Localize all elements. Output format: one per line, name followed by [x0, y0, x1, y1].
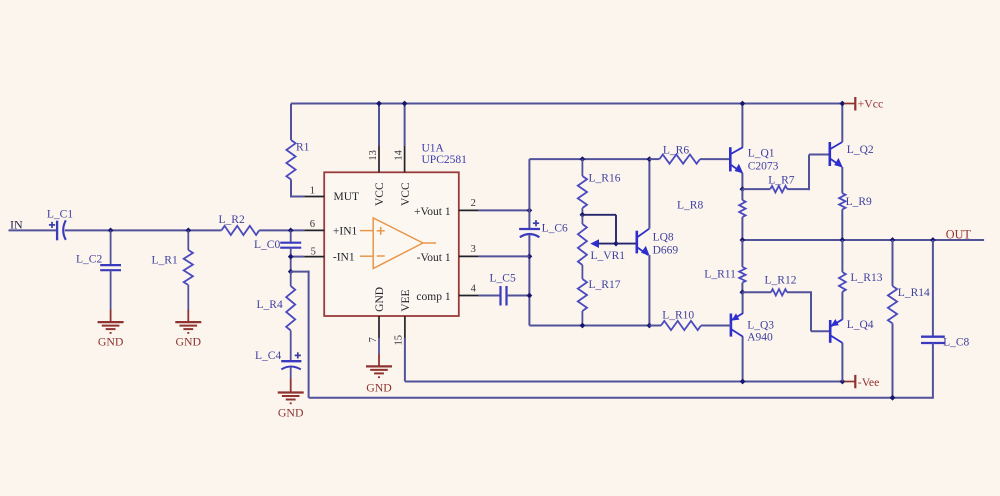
capacitor L_C0 [280, 242, 301, 244]
svg-text:15: 15 [394, 335, 405, 346]
wire Q2 collector riser [841, 104, 843, 143]
svg-text:1: 1 [310, 185, 315, 196]
svg-text:14: 14 [393, 149, 404, 160]
svg-text:MUT: MUT [334, 191, 360, 203]
wire OUT rail [742, 239, 984, 241]
ground GND under C2 [98, 321, 124, 323]
wire R16 bottom [581, 208, 583, 216]
node input junction 1 [108, 228, 114, 234]
svg-text:L_R13: L_R13 [851, 272, 883, 284]
svg-text:D669: D669 [653, 245, 679, 257]
svg-text:L_R11: L_R11 [704, 268, 736, 280]
wire R4 to C4 [290, 331, 292, 362]
node R14 feedback junction [890, 395, 896, 401]
wire R1 to gnd [187, 285, 189, 310]
svg-text:GND: GND [278, 406, 304, 420]
svg-text:L_Q4: L_Q4 [847, 319, 874, 331]
svg-text:LQ8: LQ8 [653, 232, 674, 244]
wire Q3 collector riser [742, 337, 744, 382]
node pin13 junction [376, 101, 382, 107]
wire R1 branch [187, 230, 189, 250]
wire R14 to feedback [892, 323, 894, 397]
wire input to R2 [65, 229, 222, 231]
svg-text:L_VR1: L_VR1 [591, 250, 626, 262]
transistor L_Q4 [829, 320, 832, 343]
node Q8 top junction [647, 156, 653, 162]
wire R10 to Q3 base [701, 325, 731, 327]
capacitor L_C8 [921, 336, 945, 338]
svg-text:GND: GND [176, 334, 202, 348]
node Q3 collector junction [740, 379, 746, 385]
svg-text:L_R4: L_R4 [257, 299, 283, 311]
transistor LQ8 D669 [635, 231, 638, 254]
svg-text:L_R9: L_R9 [846, 196, 872, 208]
resistor L_R13 [841, 240, 843, 272]
svg-text:L_R6: L_R6 [663, 144, 689, 156]
pin 3 stub [459, 255, 479, 257]
svg-text:-Vout 1: -Vout 1 [417, 252, 451, 264]
svg-text:L_Q2: L_Q2 [847, 144, 874, 156]
ground GND pin7 [366, 365, 392, 367]
wire feedback bottom run [309, 397, 933, 399]
node Q1 emitter junction [740, 186, 746, 192]
wire C0 bottom / pin5 node [290, 248, 292, 272]
svg-text:7: 7 [368, 337, 379, 342]
wire C2 branch [110, 230, 112, 265]
wire C8 top [932, 240, 934, 337]
svg-text:C2073: C2073 [748, 160, 779, 172]
resistor L_R14 [892, 240, 894, 286]
wire Q3 emitter riser [742, 292, 744, 313]
pin 13 VCC stub [378, 104, 380, 147]
potentiometer L_VR1 [581, 215, 583, 224]
resistor L_R9 [839, 193, 845, 209]
node pin3 junction [527, 254, 533, 260]
svg-text:L_R7: L_R7 [768, 175, 794, 187]
svg-text:comp 1: comp 1 [416, 291, 450, 303]
wire wiper to Q8 base [616, 243, 637, 245]
wire node A riser [528, 159, 530, 229]
wire C8 bottom [932, 343, 934, 399]
wire C6 bottom to bottom rail [528, 235, 530, 326]
svg-text:L_C1: L_C1 [47, 209, 73, 221]
node pin14 junction [402, 101, 408, 107]
svg-text:6: 6 [310, 219, 315, 230]
resistor L_R12 [742, 291, 771, 293]
op-amp U1A triangle [373, 218, 423, 269]
wire R13 to Q4 emitter [841, 292, 843, 320]
transistor L_Q1 C2073 [729, 147, 732, 171]
wire R7 to Q2 base [787, 188, 810, 190]
pin 1 MUT stub [304, 196, 324, 198]
svg-text:L_Q3: L_Q3 [747, 319, 774, 331]
svg-text:L_R17: L_R17 [589, 279, 621, 291]
ground GND under L_R1 [175, 321, 201, 323]
wire R1 to pin1 [290, 180, 292, 198]
wire R17 bottom [581, 311, 583, 326]
resistor L_R1 [184, 250, 193, 285]
wire Q8 collector riser [648, 159, 650, 229]
svg-text:L_R1: L_R1 [152, 255, 178, 267]
svg-text:OUT: OUT [946, 227, 972, 241]
wire R8 to OUT rail [741, 217, 743, 240]
node input junction 2 [185, 228, 191, 234]
svg-text:+Vcc: +Vcc [858, 96, 884, 110]
wire C4 to gnd [290, 367, 292, 378]
capacitor L_C1 [56, 221, 58, 241]
svg-text:L_C0: L_C0 [254, 239, 280, 251]
resistor L_R11 [741, 240, 743, 267]
svg-text:R1: R1 [296, 142, 310, 154]
svg-text:-Vee: -Vee [858, 375, 880, 389]
svg-text:GND: GND [98, 334, 124, 348]
svg-text:U1A: U1A [422, 143, 445, 155]
pin 5 stub [304, 256, 324, 258]
node R17 bottom junction [580, 323, 586, 329]
wire VR1 wiper arm [582, 214, 616, 216]
resistor L_R8 [741, 189, 743, 200]
node OUT rail R14 junction [890, 237, 896, 243]
wire R6 to Q1 base [700, 158, 730, 160]
svg-text:4: 4 [471, 283, 477, 294]
wire R12 to Q4 base [787, 291, 812, 293]
wire Q1 collector riser [741, 104, 743, 148]
svg-text:A940: A940 [747, 332, 773, 344]
svg-text:GND: GND [366, 381, 392, 395]
svg-text:L_C4: L_C4 [255, 350, 281, 362]
power -Vee [845, 381, 856, 383]
op-amp IC U1A body [324, 172, 459, 316]
wire R11 to R12 node [741, 283, 743, 293]
pin 4 stub [459, 295, 479, 297]
wire node A top rail [529, 158, 649, 160]
svg-text:13: 13 [368, 150, 379, 161]
pin 15 VEE stub [404, 316, 406, 338]
node junction at C0 top [288, 228, 294, 234]
node Q2 collector junction [839, 101, 845, 107]
svg-text:L_R14: L_R14 [898, 287, 930, 299]
svg-text:2: 2 [471, 198, 476, 209]
wire Q1 emitter riser [741, 173, 743, 189]
node Q8 bottom junction [647, 323, 653, 329]
node Q4 collector junction [840, 379, 846, 385]
resistor L_R6 [649, 158, 659, 160]
svg-text:L_R12: L_R12 [765, 275, 797, 287]
wire feedback down-leg [291, 271, 310, 273]
resistor L_R2 [221, 226, 259, 235]
node pin5 junction [288, 254, 294, 260]
wire R9 to OUT rail [841, 209, 843, 240]
node OUT rail R9 junction [839, 237, 845, 243]
node VR1 top junction [580, 212, 586, 218]
wire +Vcc top rail [291, 103, 844, 105]
capacitor L_C5 [499, 286, 501, 306]
node pin4 junction [527, 293, 533, 299]
svg-text:L_C2: L_C2 [76, 254, 102, 266]
svg-text:+Vout 1: +Vout 1 [414, 206, 451, 218]
svg-text:L_R8: L_R8 [677, 200, 703, 212]
wire C5 to node [507, 295, 530, 297]
svg-text:L_C6: L_C6 [542, 222, 568, 234]
transistor L_Q2 [828, 142, 831, 166]
wire pin3 to node [479, 255, 530, 257]
power +Vcc [844, 103, 855, 105]
node pin2 junction [527, 208, 533, 214]
capacitor L_C2 [100, 264, 121, 266]
svg-text:3: 3 [471, 244, 476, 255]
wire Q2 emitter riser [841, 167, 843, 193]
node R16 top junction [580, 156, 586, 162]
svg-text:GND: GND [374, 287, 386, 312]
wire R2 to pin6 [259, 229, 304, 231]
resistor L_R16 [581, 159, 583, 176]
resistor L_R4 [290, 272, 292, 286]
node feedback tee junction [288, 269, 294, 275]
pin 2 stub [459, 209, 479, 211]
node OUT rail C8 junction [930, 237, 936, 243]
resistor L_R7 [742, 188, 770, 190]
node wiper junction [613, 241, 619, 247]
svg-text:5: 5 [311, 247, 316, 258]
wire C0 top [290, 230, 292, 242]
svg-text:UPC2581: UPC2581 [422, 154, 468, 166]
wire -Vee rail [405, 381, 845, 383]
transistor L_Q3 A940 [730, 314, 733, 337]
resistor R1 [290, 104, 292, 141]
svg-text:-IN1: -IN1 [333, 252, 355, 264]
node R12 junction [740, 289, 746, 295]
resistor L_R17 [581, 265, 583, 279]
svg-text:VCC: VCC [400, 182, 412, 206]
wire Q8 emitter riser [648, 255, 650, 326]
ground GND under C4 [278, 391, 304, 393]
svg-text:L_Q1: L_Q1 [748, 147, 775, 159]
pin 14 VCC stub [404, 104, 406, 147]
svg-text:L_R2: L_R2 [219, 214, 245, 226]
svg-text:L_R16: L_R16 [589, 173, 621, 185]
svg-text:L_C5: L_C5 [490, 273, 516, 285]
wire pin4 to C5 [479, 295, 501, 297]
svg-text:+IN1: +IN1 [333, 226, 358, 238]
node OUT rail R8 junction [740, 237, 746, 243]
wire Q4 collector riser [841, 343, 843, 382]
pin 6 stub [304, 229, 324, 231]
svg-text:VCC: VCC [374, 182, 386, 206]
capacitor L_C4 [281, 360, 301, 362]
wire C2 to gnd [110, 270, 112, 309]
wire pin2 to node A [479, 209, 530, 211]
resistor L_R10 [649, 325, 661, 327]
svg-text:L_C8: L_C8 [943, 337, 969, 349]
wire pin15 riser [404, 338, 406, 382]
svg-text:IN: IN [10, 217, 23, 231]
wire bottom mid rail [529, 325, 649, 327]
node Q1 collector junction [740, 101, 746, 107]
svg-text:L_R10: L_R10 [662, 310, 694, 322]
svg-text:VEE: VEE [400, 289, 412, 311]
pin 7 GND stub [378, 316, 380, 338]
capacitor L_C6 [519, 228, 540, 230]
